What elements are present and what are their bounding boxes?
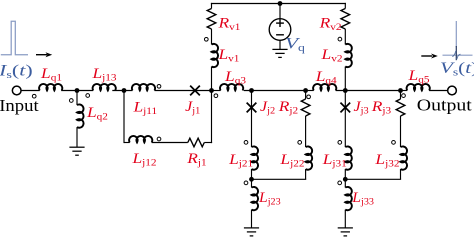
label Output (417, 96, 472, 114)
node A (75, 88, 80, 93)
label Rv1 (217, 16, 240, 33)
ground under Lj33 (338, 228, 353, 236)
wire Lq1 to Lj13 (61, 90, 93, 92)
winding dot Lj22 (298, 141, 302, 145)
wire Rv2 to top rail (344, 3, 346, 9)
label Vq (285, 35, 305, 53)
wire Lq4 to node G (336, 90, 401, 92)
josephson junction Jj2 (247, 103, 257, 113)
label Lj12 (131, 151, 156, 168)
resistor Rj3 (396, 99, 405, 116)
node F (343, 88, 348, 93)
svg-text:Lj12: Lj12 (131, 151, 156, 168)
ground under Vq (272, 49, 287, 57)
node I (343, 177, 348, 182)
inductor Lj31 (345, 146, 352, 169)
label Lj22 (279, 152, 304, 169)
ground under Lq2 (69, 147, 84, 155)
svg-text:Lj33: Lj33 (351, 190, 374, 207)
wire Lj33 to ground (344, 210, 346, 228)
svg-text:Lj31: Lj31 (322, 152, 347, 169)
label Lj13 (91, 66, 116, 83)
output arrow (421, 54, 438, 59)
resistor Rv2 (341, 9, 350, 30)
wire node H to Lj22 branch (252, 178, 307, 180)
svg-text:Rv1: Rv1 (217, 16, 240, 33)
winding dot Lq1 (32, 94, 36, 98)
wire node E to Lq4 (306, 90, 314, 92)
svg-text:Output: Output (417, 96, 472, 114)
wire top to Vq (279, 4, 281, 19)
svg-text:Rv2: Rv2 (319, 16, 342, 33)
node C (209, 88, 214, 93)
svg-text:Jj1: Jj1 (185, 98, 200, 116)
wire loop right up (211, 91, 213, 144)
svg-text:Rj2: Rj2 (278, 99, 298, 116)
svg-text:Lj11: Lj11 (132, 100, 157, 117)
svg-text:Vs(t): Vs(t) (440, 60, 474, 78)
label Rv2 (319, 16, 342, 33)
inductor Lj22 (306, 146, 313, 169)
svg-text:Lj32: Lj32 (374, 152, 399, 169)
wire node D to Jj2 (251, 91, 253, 108)
label Rj1 (186, 151, 206, 168)
label Rj2 (278, 99, 298, 116)
winding dot Lj31 (338, 141, 342, 145)
output port (448, 86, 457, 95)
wire node I to Lj33 (344, 179, 346, 187)
wire node A down (76, 91, 78, 106)
inductor Lj23 (252, 187, 259, 210)
ground under Lj23 (244, 228, 259, 236)
winding dot Lj13 (86, 94, 90, 98)
wire Rv1 to top rail (211, 3, 213, 9)
wire Lv1 to Rv1 (211, 29, 213, 45)
winding dot Lq2 (69, 99, 73, 103)
resistor Rj1 (188, 138, 205, 147)
inductor Lj33 (345, 187, 352, 210)
svg-text:Lj21: Lj21 (228, 152, 253, 169)
svg-text:Jj3: Jj3 (354, 98, 369, 116)
josephson junction Jj3 (340, 103, 350, 113)
wire node C up to Lv1 (211, 67, 213, 91)
winding dot Lj33 (338, 181, 342, 185)
Vq plus sign (276, 19, 284, 27)
winding dot Lj32 (392, 141, 396, 145)
label Input (0, 96, 39, 115)
label Lq4 (315, 69, 338, 86)
node D (249, 88, 254, 93)
label Lj33 (351, 190, 374, 207)
winding dot Lj11 (157, 84, 161, 88)
top rail wire (211, 3, 346, 5)
inductor Lv1 (212, 44, 219, 67)
wire node I to Lj32 branch (345, 178, 401, 180)
input pulse waveform Is (1, 21, 28, 55)
label Lj32 (374, 152, 399, 169)
winding dot Lq4 (307, 95, 311, 99)
svg-text:Lq4: Lq4 (315, 69, 338, 86)
label Rj3 (371, 99, 391, 116)
label Lq1 (40, 66, 62, 83)
svg-text:Jj2: Jj2 (260, 98, 275, 116)
svg-text:Lj23: Lj23 (258, 190, 281, 207)
label Jj2 (260, 98, 275, 116)
label Lq2 (86, 105, 108, 122)
wire Lj21 to node H (251, 169, 253, 179)
winding dot Lv1 (204, 37, 208, 41)
inductor Lq4 (313, 84, 336, 91)
label Lq3 (224, 69, 246, 86)
inductor Lq1 (39, 84, 62, 91)
svg-text:Input: Input (0, 96, 39, 115)
svg-text:Lv1: Lv1 (217, 47, 239, 64)
label Vs(t) (440, 60, 474, 78)
inductor Lq3 (220, 84, 243, 91)
wire Lv2 to node F (344, 67, 346, 91)
svg-text:Rj3: Rj3 (371, 99, 391, 116)
wire Lq5 to output (429, 90, 448, 92)
josephson junction Jj1 (190, 86, 200, 96)
svg-text:Vq: Vq (285, 35, 305, 53)
svg-text:Lv2: Lv2 (320, 47, 342, 64)
winding dot Lj23 (244, 181, 248, 185)
wire Lq2 to ground (76, 127, 78, 147)
inductor Lq5 (407, 84, 430, 91)
svg-text:Is(t): Is(t) (0, 62, 33, 80)
node E (303, 88, 308, 93)
wire Lj13 to Lj11 (112, 90, 132, 92)
wire node B down (123, 91, 125, 144)
svg-text:Lq1: Lq1 (40, 66, 62, 83)
inductor Lj13 (93, 84, 116, 91)
node G (398, 88, 403, 93)
winding dot Lj21 (244, 141, 248, 145)
node H (249, 177, 254, 182)
inductor Lv2 (345, 44, 352, 67)
inductor Lj11 (132, 84, 155, 91)
label Is(t) (0, 62, 33, 80)
label Lv1 (217, 47, 239, 64)
resistor Rv1 (207, 9, 216, 30)
wire Lj11 to Jj1 (155, 90, 196, 92)
voltage source Vq circle (269, 19, 291, 41)
winding dot Lv2 (338, 37, 342, 41)
wire Jj2 to Lj21 (251, 108, 253, 148)
wire node G to Rj3 (400, 91, 402, 100)
resistor Rj2 (301, 99, 310, 116)
node B (122, 88, 127, 93)
inductor Lj21 (252, 146, 259, 169)
wire Jj1 to node C (195, 90, 212, 92)
label Lj11 (132, 100, 157, 117)
svg-text:Lq5: Lq5 (407, 68, 429, 85)
winding dot Lq3 (214, 94, 218, 98)
wire Lj22 down (305, 169, 307, 179)
wire node F to Jj3 (344, 91, 346, 108)
wire Lj32 down (400, 169, 402, 179)
label Lj23 (258, 190, 281, 207)
wire node C to Lq3 (212, 90, 221, 92)
Vq minus sign (276, 34, 284, 36)
output spike waveform Vs (443, 21, 473, 60)
svg-text:Lj13: Lj13 (91, 66, 116, 83)
input arrow (36, 52, 52, 57)
winding dot Lq5 (402, 94, 406, 98)
wire input to Lq1 (21, 90, 40, 92)
node top rail Vq (278, 1, 283, 6)
label Jj3 (354, 98, 369, 116)
inductor Lq2 (77, 104, 84, 127)
wire Rj3 to Lj32 (400, 116, 402, 147)
wire Vq to ground (279, 40, 281, 49)
wire Rj2 to Lj22 (305, 116, 307, 147)
label Lq5 (407, 68, 429, 85)
wire Lj12 to Rj1 (152, 142, 188, 144)
svg-text:Lq2: Lq2 (86, 105, 108, 122)
svg-text:Lq3: Lq3 (224, 69, 246, 86)
svg-text:Lj22: Lj22 (279, 152, 304, 169)
wire node G to Lq5 (401, 90, 408, 92)
label Lv2 (320, 47, 342, 64)
winding dot Lj12 (157, 137, 161, 141)
wire loop bottom left (124, 142, 130, 144)
wire Lj31 to node I (344, 169, 346, 179)
label Lj31 (322, 152, 347, 169)
wire Lq3 to node E (244, 90, 306, 92)
wire Lj23 to ground (251, 210, 253, 228)
svg-text:Rj1: Rj1 (186, 151, 206, 168)
label Jj1 (185, 98, 200, 116)
inductor Lj32 (401, 146, 408, 169)
wire node E to Rj2 (305, 91, 307, 100)
wire Jj3 to Lj31 (344, 108, 346, 148)
label Lj21 (228, 152, 253, 169)
wire Rv2 to Lv2 (344, 29, 346, 45)
inductor Lj12 (129, 136, 152, 143)
wire Rj1 to corner (204, 142, 212, 144)
wire node H to Lj23 (251, 179, 253, 187)
input port (12, 86, 21, 95)
